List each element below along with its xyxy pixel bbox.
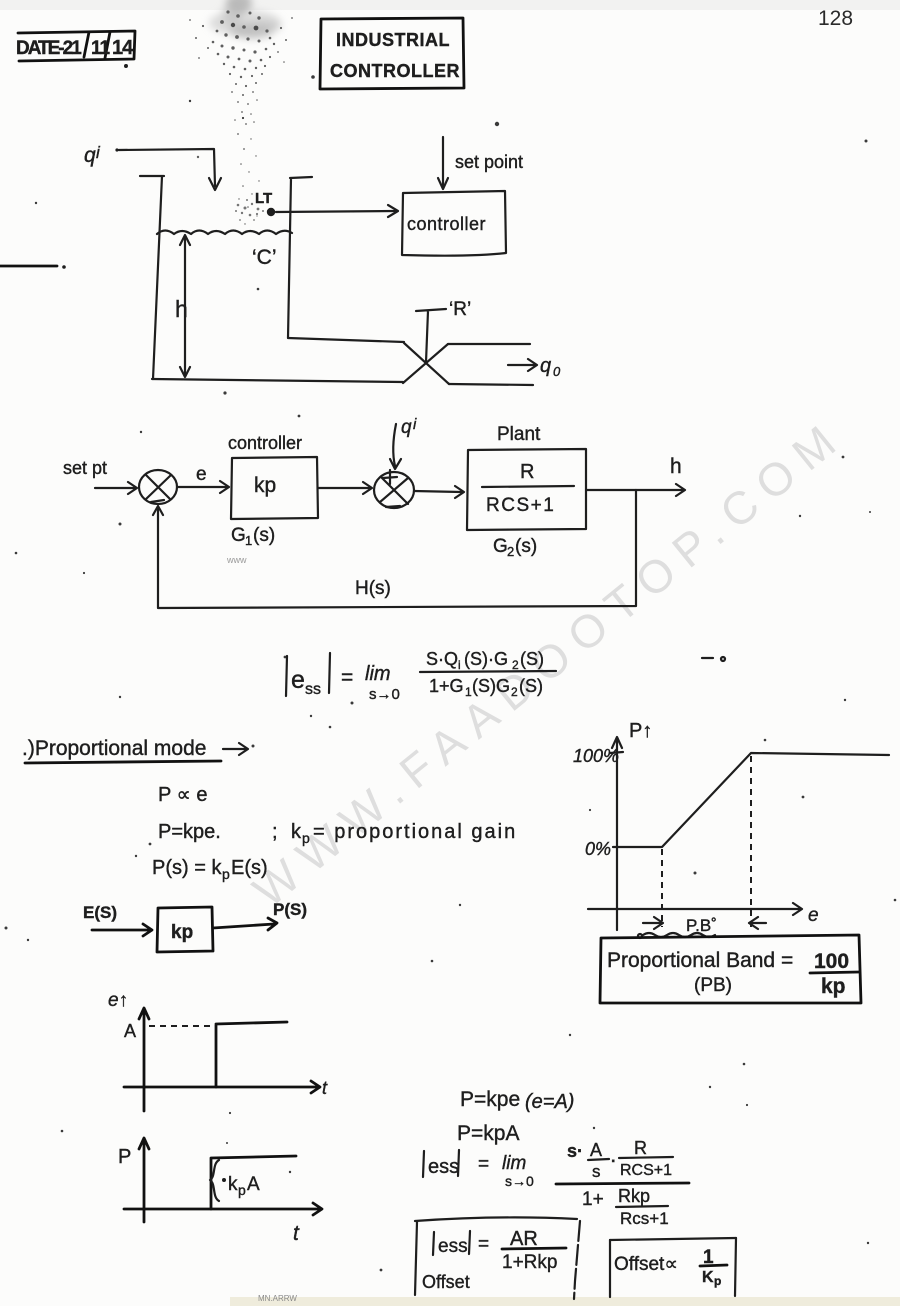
- svg-text:q: q: [540, 355, 551, 377]
- denominator 1 + RKp/(RCS+1): [582, 1186, 669, 1228]
- svg-text:s: s: [592, 1162, 601, 1181]
- curve proportional band: [613, 753, 889, 847]
- svg-text:‘C’: ‘C’: [252, 246, 277, 269]
- svg-text:R: R: [634, 1138, 647, 1158]
- svg-text:= proportional gain: = proportional gain: [313, 821, 517, 843]
- sub-fraction s.(A/s): [567, 1140, 616, 1181]
- svg-text:Proportional Band =: Proportional Band =: [607, 949, 793, 972]
- stray dash mark right: [702, 657, 713, 659]
- svg-text:2: 2: [507, 544, 514, 559]
- tank right wall with lip: [288, 177, 312, 338]
- svg-text:DATE-21: DATE-21: [16, 38, 82, 59]
- svg-text:ess: ess: [438, 1236, 468, 1257]
- equation denominator 1+G1(s)G2(s): [429, 676, 543, 699]
- svg-text:controller: controller: [407, 214, 486, 234]
- svg-text:H(s): H(s): [355, 578, 391, 599]
- svg-text:E(s): E(s): [231, 857, 268, 879]
- svg-text:RCS+1: RCS+1: [486, 495, 555, 516]
- svg-text:1: 1: [245, 533, 252, 548]
- wire set pt input arrow: [95, 482, 137, 494]
- svg-text:P(S): P(S): [273, 900, 307, 919]
- wire S2 to plant box: [414, 486, 464, 498]
- svg-text:ess: ess: [428, 1156, 459, 1178]
- svg-text:1+: 1+: [582, 1189, 604, 1210]
- sub-fraction R/(RCS+1): [619, 1138, 673, 1179]
- equation fraction bar: [420, 671, 556, 672]
- svg-text:(S)·G: (S)·G: [464, 649, 508, 669]
- svg-text:Offset: Offset: [422, 1272, 470, 1292]
- svg-text:S·Q: S·Q: [426, 649, 458, 669]
- brace KpA: [210, 1160, 219, 1201]
- svg-text:.)Proportional mode: .)Proportional mode: [22, 737, 206, 760]
- svg-text:h: h: [670, 455, 682, 478]
- svg-text:P=kpe: P=kpe: [460, 1088, 520, 1111]
- svg-text:p: p: [714, 1274, 721, 1288]
- top scan band: [0, 0, 900, 10]
- bottom scan highlight band: [230, 1297, 900, 1306]
- svg-text:P↑: P↑: [629, 720, 652, 742]
- svg-text:s·: s·: [567, 1141, 583, 1161]
- svg-text:p: p: [302, 830, 310, 846]
- svg-text:kp: kp: [171, 922, 193, 943]
- svg-text:=: =: [341, 666, 353, 689]
- svg-text:P ∝ e: P ∝ e: [158, 784, 208, 806]
- arrowhead LT wire: [388, 205, 398, 217]
- y-axis P-t graph: [139, 1138, 149, 1222]
- svg-text:k: k: [228, 1174, 238, 1195]
- pipe top wall to valve: [288, 338, 404, 342]
- svg-text:2: 2: [511, 685, 518, 699]
- svg-text:lim: lim: [365, 663, 391, 685]
- svg-text:e: e: [808, 905, 819, 926]
- x-axis e-t graph: [124, 1081, 320, 1093]
- svg-text:A: A: [124, 1021, 136, 1041]
- svg-text:0: 0: [553, 364, 561, 379]
- svg-text:A: A: [247, 1174, 260, 1195]
- fraction bar AR/(1+RKp): [502, 1248, 566, 1249]
- svg-text:G: G: [493, 536, 508, 557]
- wire input to Kp: [92, 924, 152, 936]
- svg-text:Rkp: Rkp: [618, 1186, 650, 1206]
- fraction bar 100/Kp: [810, 972, 859, 973]
- svg-text:e: e: [291, 666, 305, 694]
- summing junction S1: [139, 470, 177, 504]
- plant box: [467, 449, 586, 530]
- wire LT to controller: [276, 211, 395, 212]
- equation P=Kpe (e=A): [460, 1088, 574, 1113]
- arrow qo outflow: [508, 359, 537, 371]
- svg-text:i: i: [458, 658, 461, 672]
- arrowhead feedback into S1: [153, 506, 163, 515]
- svg-text:1+G: 1+G: [429, 676, 464, 696]
- equation |ess| = lim s->0: [286, 653, 400, 703]
- small smudge near LT: [235, 199, 264, 221]
- PB squiggle underline: [643, 933, 715, 937]
- svg-text:p: p: [222, 866, 230, 882]
- title box INDUSTRIAL CONTROLLER: [320, 18, 464, 89]
- svg-text:set pt: set pt: [63, 458, 107, 478]
- pipe outlet bottom wall: [449, 384, 533, 385]
- svg-text:;: ;: [272, 821, 278, 843]
- summing junction S2: [374, 472, 414, 508]
- svg-text:A: A: [590, 1140, 602, 1160]
- svg-text:kp: kp: [821, 975, 846, 998]
- label |ess| =: [433, 1231, 489, 1257]
- tank left wall with lip: [140, 176, 164, 379]
- wire S1 to Kp box: [177, 481, 229, 493]
- svg-text:100%: 100%: [573, 746, 619, 766]
- arrowhead qi into tank: [209, 178, 221, 190]
- heading arrow: [223, 743, 248, 755]
- equation |ess| = lim: [423, 1150, 534, 1189]
- svg-text:E(S): E(S): [83, 903, 117, 922]
- dashed line at PB start: [661, 849, 663, 927]
- x-axis P-t graph: [124, 1203, 322, 1215]
- svg-text:Rcs+1: Rcs+1: [620, 1209, 669, 1228]
- svg-text:CONTROLLER: CONTROLLER: [330, 61, 460, 81]
- svg-text:R: R: [520, 461, 534, 483]
- svg-text:controller: controller: [228, 433, 302, 453]
- svg-text:K: K: [702, 1269, 714, 1286]
- pipe outlet top wall: [448, 343, 530, 345]
- y-axis P: [612, 737, 622, 930]
- svg-text:100: 100: [814, 950, 849, 973]
- dashed level A: [149, 1025, 213, 1027]
- wire plant output to h: [586, 484, 685, 496]
- svg-text:1: 1: [465, 685, 472, 699]
- plus sign S2: [383, 470, 397, 484]
- svg-text:q: q: [84, 144, 96, 167]
- svg-text:Offset∝: Offset∝: [614, 1254, 678, 1275]
- svg-text:(S): (S): [520, 649, 544, 669]
- fraction bar plant: [482, 486, 574, 487]
- svg-text:(s): (s): [515, 536, 537, 557]
- svg-text:P.B˚: P.B˚: [686, 916, 717, 935]
- svg-text:e: e: [196, 464, 207, 485]
- watermark: [243, 408, 854, 917]
- wire Kp to summing junction S2: [318, 482, 372, 494]
- svg-text:·: ·: [611, 1153, 616, 1170]
- svg-text:P=kpe.: P=kpe.: [158, 821, 221, 843]
- svg-text:s→0: s→0: [369, 686, 400, 703]
- controller box: [402, 191, 506, 256]
- svg-text:(S): (S): [519, 676, 543, 696]
- y-axis e-t graph: [139, 1008, 149, 1111]
- svg-text:(S)G: (S)G: [472, 676, 510, 696]
- svg-text:11: 11: [91, 38, 111, 59]
- PB left arrow: [643, 917, 663, 929]
- PB right arrow: [749, 917, 766, 929]
- svg-text:RCS+1: RCS+1: [620, 1162, 672, 1179]
- svg-text:G: G: [231, 525, 246, 546]
- svg-text:AR: AR: [510, 1228, 538, 1250]
- svg-text:LT: LT: [255, 190, 272, 207]
- svg-text:=: =: [478, 1154, 489, 1175]
- svg-text:1+Rkp: 1+Rkp: [502, 1252, 557, 1273]
- tick 100%: [610, 752, 623, 753]
- svg-text:0%: 0%: [585, 839, 611, 859]
- svg-text:=: =: [478, 1234, 489, 1255]
- dimension h arrow (level height): [184, 237, 186, 375]
- arrowhead set point: [438, 178, 448, 189]
- svg-text:(e=A): (e=A): [525, 1091, 574, 1113]
- dashed line at PB end: [750, 756, 752, 927]
- wire set point input: [442, 137, 444, 186]
- svg-text:(PB): (PB): [694, 975, 732, 996]
- offset box: [610, 1238, 736, 1297]
- wire feedback H(s): [158, 490, 636, 608]
- valve stem R: [416, 309, 446, 362]
- left margin dash: [0, 265, 57, 268]
- result box |ess|=AR/(1+RKp): [415, 1217, 580, 1299]
- svg-text:Plant: Plant: [497, 424, 541, 445]
- svg-text:www: www: [226, 555, 247, 565]
- svg-text:k: k: [291, 821, 302, 843]
- svg-text:‘R’: ‘R’: [449, 299, 471, 320]
- svg-text:14: 14: [112, 37, 134, 59]
- svg-text:lim: lim: [502, 1153, 526, 1174]
- wire qi inlet feed: [115, 148, 118, 151]
- minus sign S1: [151, 500, 164, 502]
- main fraction bar: [556, 1183, 689, 1184]
- minus sign S2: [386, 506, 400, 507]
- svg-text:2: 2: [512, 658, 519, 672]
- block Kp: [157, 907, 213, 952]
- svg-text:q: q: [401, 417, 412, 438]
- equation numerator S.Qi(s).G2(s): [426, 649, 544, 672]
- tank bottom wall: [152, 379, 403, 382]
- svg-text:set point: set point: [455, 152, 523, 172]
- svg-text:P: P: [118, 1146, 131, 1168]
- wire qi into S2: [393, 424, 396, 466]
- svg-text:P=kpA: P=kpA: [457, 1122, 519, 1145]
- svg-text:p: p: [238, 1182, 246, 1198]
- wire Kp to P(S): [213, 918, 277, 930]
- svg-text:e↑: e↑: [108, 990, 128, 1011]
- svg-text:128: 128: [818, 7, 853, 30]
- step function P: [211, 1156, 296, 1209]
- step function e: [216, 1022, 287, 1087]
- svg-text:P(s) = k: P(s) = k: [152, 857, 222, 879]
- svg-text:s→0: s→0: [505, 1173, 534, 1189]
- controller block Kp: [231, 457, 318, 519]
- svg-text:h: h: [175, 296, 188, 322]
- water surface wavy line: [157, 231, 292, 235]
- svg-text:kp: kp: [254, 474, 276, 497]
- x-axis e: [588, 903, 802, 915]
- svg-text:(s): (s): [253, 525, 275, 546]
- date box: [16, 31, 135, 68]
- svg-text:MN.ARRW: MN.ARRW: [258, 1294, 297, 1303]
- node LT sensor dot: [267, 208, 275, 216]
- svg-text:INDUSTRIAL: INDUSTRIAL: [336, 30, 450, 50]
- svg-text:ss: ss: [305, 681, 321, 698]
- proportional band formula box: [600, 935, 861, 1003]
- valve X body: [403, 343, 449, 384]
- heading underline: [25, 761, 221, 763]
